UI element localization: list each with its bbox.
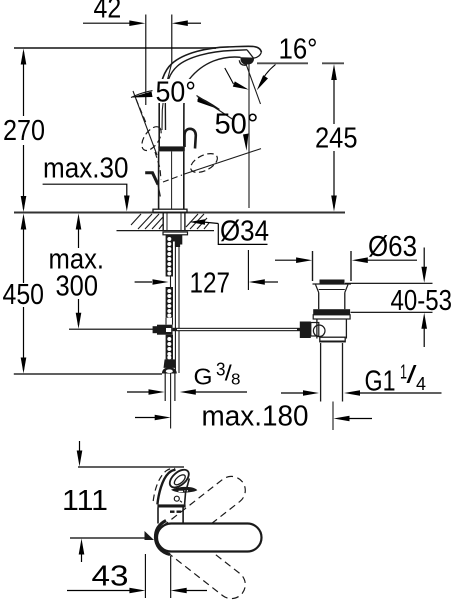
shank through counter left wall [162,213,164,231]
50 degree first arc [131,90,220,110]
50 degree first label white backing [153,79,198,103]
dimension 42 extension line left [145,15,147,106]
threaded rod lower segment [166,335,173,360]
svg-text:4: 4 [416,374,426,394]
svg-text:245: 245 [315,123,358,155]
dimension G3/8 left line with right arrow [127,391,150,393]
faucet body middle contour line [162,64,172,130]
dashed handle up-position swing lines [136,99,147,124]
dimension 40-53 lower line with up arrow [421,313,427,329]
bottom view: small tick right of dot [180,501,182,503]
dimension G1 1/4 right arrow with line [344,390,360,396]
shank inner walls [166,213,168,231]
bottom view: dashed arc over body top-left [153,468,175,501]
bottom view: pivot wedge at lever left [145,531,155,540]
dimension max.300 up arrow at counter [76,214,82,230]
faucet body right edge [184,79,190,146]
svg-text:8: 8 [231,372,241,389]
dimension max.180 right arrow with line [334,416,350,422]
50 degree second arrow pointing down to swing line [243,134,249,151]
16 degree reference line at spout tip [257,62,308,64]
drain side cylinder [311,323,319,337]
drain bottom cap [320,337,345,342]
dimension 42 extension line right [171,15,173,65]
svg-text:450: 450 [3,279,45,311]
drain flange taper right [345,285,348,293]
hose nipple blocks right of rod [173,235,182,242]
hose tube right of threaded rod [174,247,176,373]
threaded rod middle segment [166,287,173,318]
drain body left wall [316,319,318,339]
svg-text:42: 42 [94,0,122,25]
svg-text:43: 43 [92,561,129,593]
dimension 270 upper segment with up arrow [23,52,25,116]
svg-text:127: 127 [190,268,231,300]
counter hatching left of shank [131,214,163,229]
dimension 127 extension line below spout tip [247,250,249,290]
dimension O63 right arrow with line [352,257,368,263]
drain plug black seal band [320,280,345,284]
drain body right wall [345,319,347,339]
16 degree left arc [225,68,234,84]
dimension 245 top arrow at spout level [331,64,337,80]
dimension 450 bottom reference line [14,373,162,375]
bottom view: vent slits [170,511,175,513]
spout inner upper contour [165,50,247,130]
drain flange taper left [316,285,319,293]
supply hoses below washer [164,374,166,402]
hose centerline extending to max180 [170,374,172,429]
drain flange right wall [350,251,352,281]
pop-up horizontal rod to drain [173,328,300,331]
bottom view: dashed lever down position [151,518,251,600]
svg-text:50°: 50° [215,109,259,141]
faucet body column middle line [171,151,173,209]
faucet base flange [153,209,187,212]
bottom view: lever knob inner ring [173,473,187,487]
50 degree first reference slanted line [133,91,157,155]
dimension max.300 upper segment [78,225,80,248]
shank through counter right wall [184,213,186,231]
spout tip face [247,50,261,58]
dimension 40-53 lower reference line [351,311,433,313]
16 degree slanted stream line [246,64,261,104]
16 degree left arrowhead onto vertical line [233,81,249,89]
drain ball housing circle [313,325,325,337]
bottom view: 111 lower reference line [70,537,146,539]
bottom view: lever arm white slits [179,491,184,492]
dashed handle down-position ellipse [188,150,221,177]
dimension 42 line right with left arrow [186,22,201,24]
svg-text:270: 270 [3,115,45,147]
svg-text:16°: 16° [279,34,318,66]
handle open position thin tail [158,185,160,197]
dimension 43 left line with right arrow [67,590,133,592]
dimension 43 right arrow with line [171,588,187,594]
handle lever horizontal black band [158,146,185,151]
dimension 245 lower segment with down arrow [333,151,335,208]
50 degree second reference line upper segment [197,96,234,120]
max.300 bottom reference line (pop-up rod level) [69,328,154,330]
bottom view: lever arm black swoosh [171,487,197,493]
bottom view: body walls below band [157,508,159,524]
dimension 43 extension line left [144,554,146,598]
drain neck left wall [318,293,320,310]
50 degree first arc right arrowhead [197,97,220,110]
svg-text:300: 300 [56,271,99,303]
pop-up rod clamp block [157,325,173,335]
drain side knob black [300,322,311,339]
dimension 42 line left with right arrow [83,22,132,24]
dimension 270 lower segment with down arrow [23,145,25,209]
dimension 111 up arrow at lower line [79,539,85,555]
threaded rod thin centerline through 127 gap [170,277,172,288]
svg-text:Ø34: Ø34 [220,216,269,248]
faucet body column right edge [183,151,185,209]
max.30 leader underline [43,184,127,199]
bottom view: 111 top reference line [78,466,184,468]
bottom view: solid lever stadium [157,524,262,552]
handle swing slanted line to spout tip [183,149,261,175]
handle lever grip loop [185,129,196,149]
dimension 127 right arrow with line [249,279,265,285]
handle open position thick bar [145,173,158,185]
drain flange left wall [312,251,314,281]
svg-text:max.30: max.30 [43,153,129,185]
16 degree right arrowhead onto slanted line [257,75,268,90]
bottom view: lever knob outer ring [167,466,192,490]
dimension 450 upper segment [23,225,25,283]
dashed lever leader continuation [163,175,182,182]
bottom view: screw dot [174,496,179,501]
svg-text:50°: 50° [156,77,197,109]
max.30 leader down arrow [124,196,130,212]
drain neck mid ring [319,289,345,291]
dimension 245 upper segment [333,75,335,124]
spout underside contour [190,57,241,79]
drain tailpipe right wall [342,343,344,402]
dashed handle up-position ellipse [138,123,165,153]
mounting nut [164,359,177,368]
pop-up rod left knob [153,326,158,333]
bottom view: body left contour thick [157,470,175,505]
bottom view: 111 down arrow line [79,441,81,455]
svg-text:G: G [194,364,213,390]
50 degree first arc left arrowhead [131,92,153,98]
dimension O63 left line with right arrow [275,259,299,261]
svg-text:Ø63: Ø63 [368,231,417,263]
threaded rod upper segment [166,235,173,277]
bottom view: body right contour [185,479,190,505]
svg-text:max.180: max.180 [202,401,309,433]
drain neck right wall [344,293,346,310]
16 degree right arc from reference line [260,65,276,86]
bottom view: lever pivot dark band [157,504,185,507]
faucet body column left edge [158,151,160,209]
dimension G3/8 right arrow with line [180,389,196,395]
dimension 450 lower segment with down arrow [23,307,25,370]
label O34 leader arrow [189,219,205,225]
dimension 127 line left with right arrow [135,281,152,283]
counter top line [14,212,345,214]
counter bottom line [117,230,215,232]
drain flange bottom line [313,283,352,285]
dome washer [162,367,177,373]
bottom view: thick body arc at lever left end [155,521,170,555]
dimension 450 up arrow at counter [21,214,27,230]
drain tailpipe left wall [320,343,322,402]
counter hatching right of shank [186,214,209,229]
washer plate under counter [163,232,188,235]
label O34 half box [218,224,267,245]
dimension 40-53 upper line with down arrow [423,248,425,271]
spout tip vertical line down to counter [248,64,250,208]
drain axis line below [332,402,334,431]
svg-text:111: 111 [62,485,108,517]
dimension 43 extension line right [170,556,172,598]
rod clamp connector thin walls [165,318,167,325]
bottom view: dashed lever up position [151,471,251,557]
dimension max.180 left line with right arrow [135,417,157,419]
dimension G1 1/4 left line with right arrow [281,392,305,394]
dimension 40-53 upper reference line [345,282,433,284]
top reference line (faucet max height) [14,47,216,49]
drain gasket black ring [313,309,350,315]
dimension max.300 lower segment with down arrow [78,299,80,325]
spout aerator lower lip [239,60,247,65]
drain washer white band [313,315,350,319]
label O34 leader line [203,222,218,224]
faucet body outer left contour rising into spout top [159,46,261,148]
spout aerator [241,58,254,64]
